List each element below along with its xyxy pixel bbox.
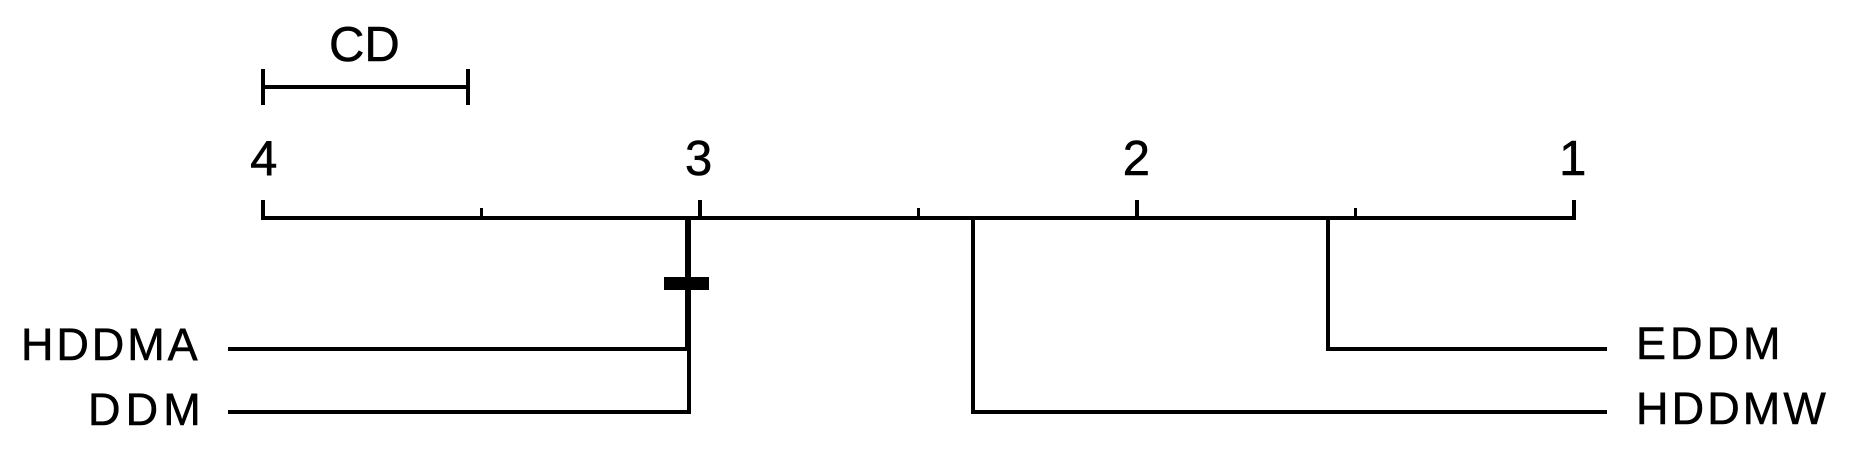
- HDDMA label line: [228, 347, 689, 351]
- HDDMA rank drop line: [685, 216, 689, 351]
- major tick at 4: [261, 200, 265, 216]
- major tick at 3: [698, 200, 702, 216]
- axis tick label 2: [1123, 135, 1150, 184]
- CD interval bar: [261, 85, 470, 89]
- CD label: [329, 21, 400, 70]
- EDDM rank drop line: [1326, 216, 1330, 351]
- major tick at 2: [1135, 200, 1139, 216]
- EDDM label: [1636, 321, 1785, 366]
- major tick at 1: [1572, 200, 1576, 216]
- axis spine: [261, 216, 1576, 220]
- HDDMA label: [21, 322, 201, 367]
- axis tick label 4: [250, 135, 277, 184]
- HDDMW rank drop line: [971, 216, 975, 414]
- DDM label: [88, 387, 206, 432]
- EDDM label line: [1328, 347, 1607, 351]
- DDM rank drop line: [687, 216, 691, 414]
- axis tick label 1: [1559, 135, 1586, 184]
- minor tick at 3.5: [480, 208, 483, 216]
- minor tick at 1.5: [1354, 208, 1357, 216]
- HDDMW label line: [971, 410, 1607, 414]
- HDDMW label: [1636, 386, 1829, 431]
- CD interval right cap: [466, 69, 470, 105]
- minor tick at 2.5: [917, 208, 920, 216]
- CD interval left cap: [261, 69, 265, 105]
- axis tick label 3: [685, 135, 712, 184]
- clique bar HDDMA-DDM: [664, 277, 709, 290]
- DDM label line: [228, 410, 691, 414]
